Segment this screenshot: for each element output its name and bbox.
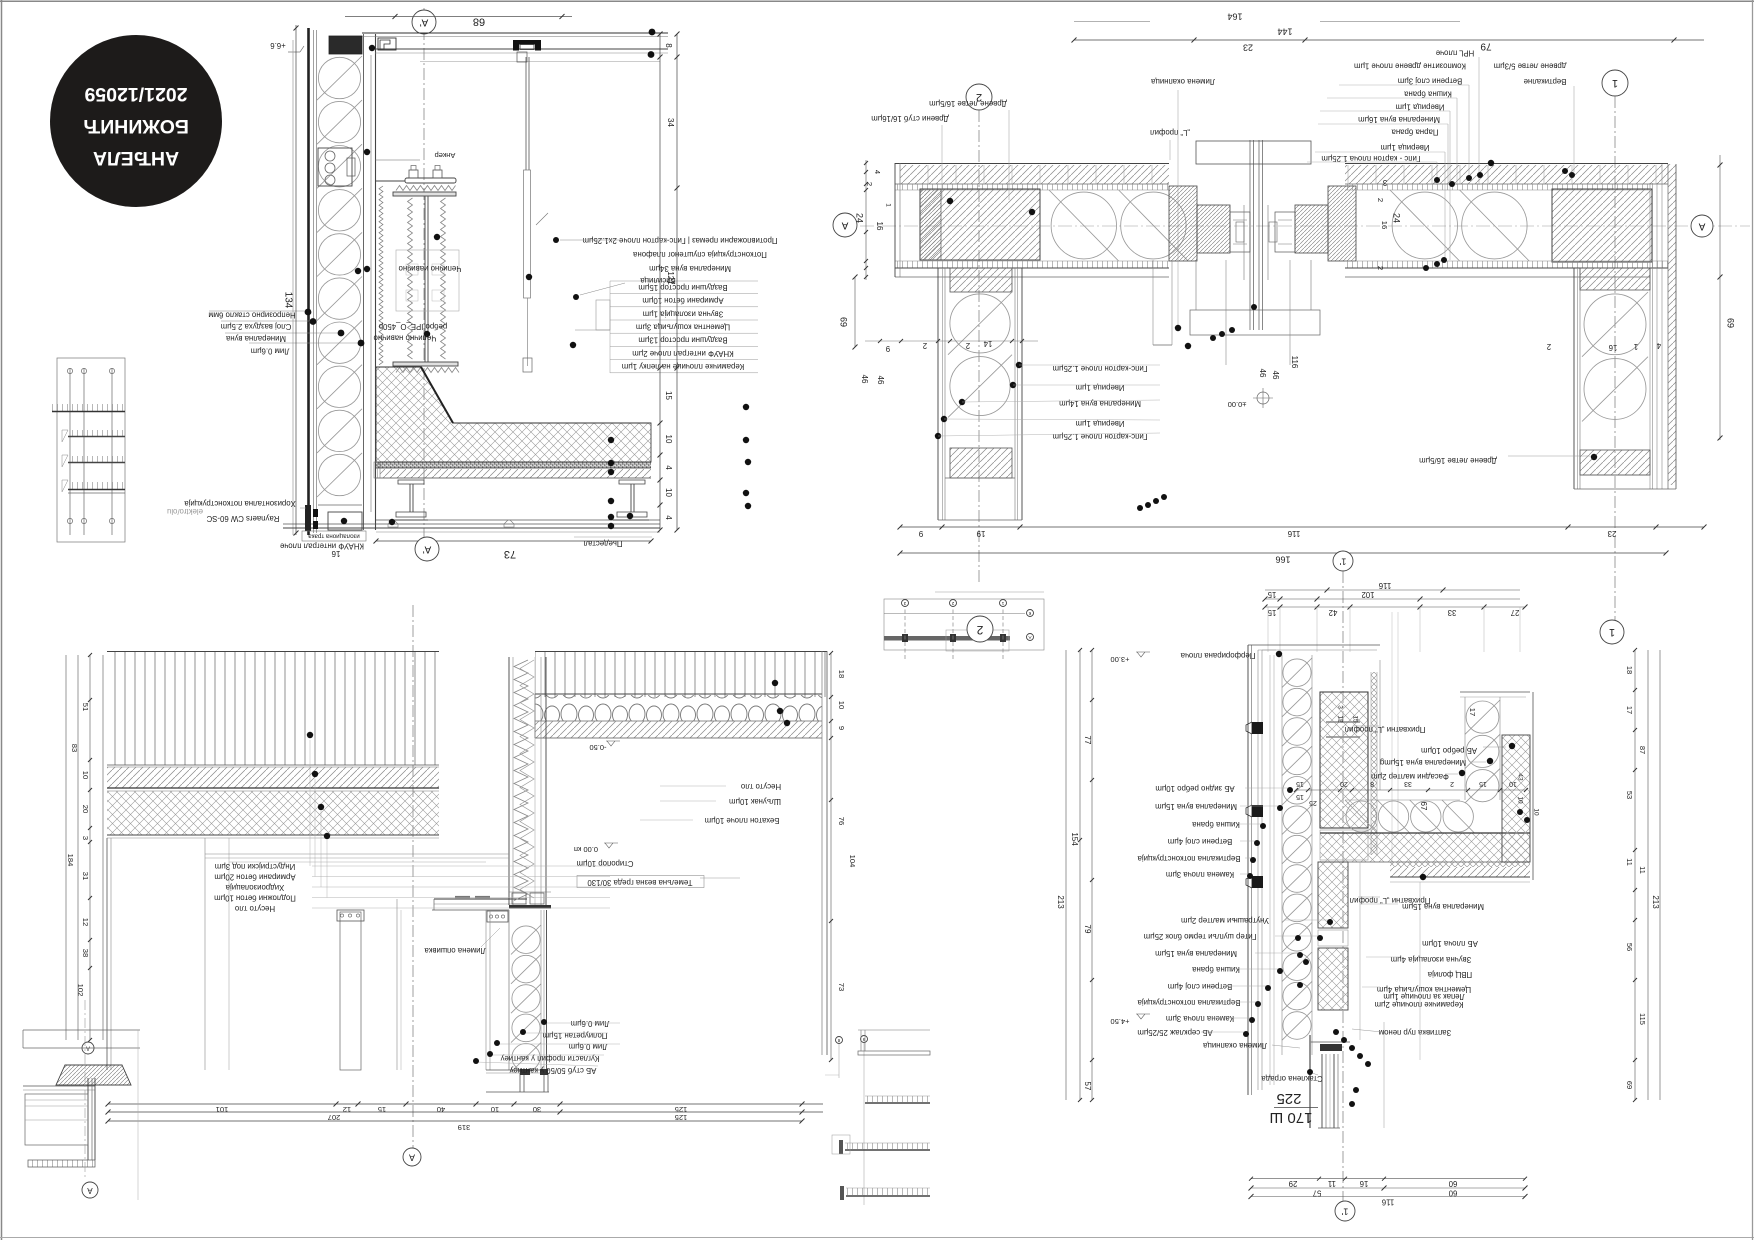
- svg-text:20: 20: [1340, 780, 1348, 787]
- svg-text:+4.50: +4.50: [1111, 1017, 1130, 1026]
- svg-text:Гитер шупљи термо блок 25μm: Гитер шупљи термо блок 25μm: [1144, 932, 1257, 941]
- corner detail lines under paver: [23, 1085, 95, 1087]
- curtain-wall top bracket: [378, 38, 396, 50]
- drawing 3 axis line: [412, 605, 414, 1148]
- svg-text:Звучна изолација 1μm: Звучна изолација 1μm: [643, 309, 724, 318]
- mini jamb detail outline: [57, 358, 125, 542]
- svg-text:Камена плоча 3μm: Камена плоча 3μm: [1166, 1014, 1234, 1023]
- svg-text:Гипс-картон плоче 1.25μm: Гипс-картон плоче 1.25μm: [1053, 364, 1148, 373]
- drawing 4 roof thin layers: [1390, 862, 1530, 867]
- svg-text:43: 43: [1516, 773, 1523, 781]
- drawing 4 facade vertical lines: [1247, 645, 1249, 1095]
- svg-text:1: 1: [1634, 342, 1638, 351]
- svg-text:42: 42: [1329, 608, 1338, 617]
- mini jamb mullion lines: [69, 368, 71, 535]
- window sill box below: [1190, 310, 1320, 335]
- fixing plate with bolts: [487, 911, 508, 922]
- leader from stack to slab: [575, 329, 610, 331]
- svg-text:69: 69: [1625, 1081, 1634, 1089]
- svg-text:17: 17: [1625, 706, 1634, 714]
- pedestal support right: [630, 484, 632, 512]
- svg-text:Хоризонтална потконструкција: Хоризонтална потконструкција: [184, 499, 296, 508]
- window left jamb hatch blocks: [1169, 186, 1197, 261]
- corner detail top bar: [23, 1029, 140, 1031]
- svg-text:24: 24: [1392, 213, 1402, 223]
- svg-text:Несуто тло: Несуто тло: [740, 782, 781, 791]
- drawing 1 section mark A' bottom: [415, 537, 439, 561]
- svg-text:87: 87: [1638, 746, 1647, 754]
- svg-text:69: 69: [1726, 318, 1736, 328]
- svg-text:Иверица 1μm: Иверица 1μm: [1076, 419, 1125, 428]
- svg-text:Стаклена ограда: Стаклена ограда: [1261, 1074, 1323, 1083]
- svg-text:А: А: [86, 1044, 90, 1050]
- sill sheet lines: [1153, 344, 1172, 346]
- svg-text:Лимена окапница: Лимена окапница: [1150, 77, 1215, 86]
- hanger rod fork: [523, 358, 532, 372]
- mini detail top frame: [858, 1029, 930, 1031]
- svg-text:Хидроизолација: Хидроизолација: [225, 883, 284, 892]
- svg-text:КНАУФ интеграл плоче: КНАУФ интеграл плоче: [280, 541, 364, 550]
- right label stack drawing 1: [610, 280, 758, 282]
- svg-text:20: 20: [81, 805, 90, 813]
- drawing 1 axis line: [423, 8, 425, 560]
- svg-text:73: 73: [504, 548, 516, 560]
- anchor bracket with bolt circles: [318, 148, 352, 186]
- svg-text:Кишна брана: Кишна брана: [1403, 89, 1451, 98]
- hanger rod: [525, 57, 527, 170]
- svg-text:46: 46: [1271, 371, 1280, 380]
- svg-text:29: 29: [1289, 1179, 1298, 1188]
- svg-text:Минерална вуна 15μm: Минерална вуна 15μm: [1155, 802, 1237, 811]
- svg-text:57: 57: [1313, 1188, 1322, 1197]
- drawing 2 left dims: [865, 160, 867, 280]
- svg-text:Потконструкција спуштеног плаф: Потконструкција спуштеног плафона: [632, 250, 766, 259]
- svg-text:2: 2: [1376, 198, 1385, 202]
- drawing 4 circle 1' bottom: [1335, 1201, 1355, 1221]
- svg-text:Камена плоча 3μm: Камена плоча 3μm: [1166, 870, 1234, 879]
- svg-text:2: 2: [1376, 266, 1385, 270]
- svg-text:ребро IPE_O_450p: ребро IPE_O_450p: [378, 322, 447, 331]
- anchor plate with bolts: [405, 178, 456, 183]
- svg-text:Композитне дрвене плоче 1μm: Композитне дрвене плоче 1μm: [1354, 61, 1466, 70]
- corner detail paver trapezoid: [56, 1065, 131, 1085]
- svg-text:±0.00: ±0.00: [1228, 400, 1247, 409]
- svg-text:46: 46: [1258, 369, 1267, 378]
- svg-text:76: 76: [837, 817, 846, 825]
- drawing 4 parapet crosshatch column: [1502, 735, 1530, 862]
- thin diagonal hatch band under screed: [380, 469, 651, 478]
- svg-text:18: 18: [1625, 666, 1634, 674]
- svg-text:+6.6: +6.6: [270, 41, 285, 50]
- floor bottom lines: [376, 519, 660, 521]
- facade clips black: [1252, 722, 1263, 734]
- drawing 3 central wall lower insulation: [485, 910, 487, 1070]
- svg-text:16: 16: [1360, 1179, 1369, 1188]
- svg-text:Парна брана: Парна брана: [1391, 128, 1439, 137]
- svg-text:„L“ профил: „L“ профил: [1150, 128, 1190, 137]
- svg-text:1': 1': [1339, 557, 1346, 567]
- svg-text:34: 34: [666, 118, 675, 127]
- svg-text:79: 79: [1480, 40, 1492, 51]
- svg-text:116: 116: [1378, 581, 1391, 590]
- drawing 3 vline left of wall: [396, 899, 398, 1070]
- drawing 2 right column downward: [1573, 268, 1575, 489]
- svg-text:319: 319: [458, 1123, 471, 1132]
- svg-text:Кишна брана: Кишна брана: [1191, 965, 1239, 974]
- svg-text:Иверица 1μm: Иверица 1μm: [1381, 143, 1430, 152]
- svg-text:15: 15: [378, 1105, 386, 1114]
- svg-text:АБ зидно ребро 10μm: АБ зидно ребро 10μm: [1155, 784, 1234, 793]
- small plan big circle 2: [967, 616, 993, 642]
- svg-text:A': A': [420, 16, 429, 27]
- drawing 1 top dim 68: [345, 16, 572, 18]
- mini detail shelf band 2: [845, 1143, 930, 1149]
- svg-text:17: 17: [1468, 708, 1477, 716]
- drawing 3 section circle A bottom: [403, 1148, 421, 1166]
- svg-text:8: 8: [664, 43, 673, 48]
- drawing 4 window head fittings: [1320, 1044, 1342, 1051]
- svg-text:+3.00: +3.00: [1111, 655, 1130, 664]
- window frame head at wall top: [509, 905, 551, 909]
- bottom dim 73: [376, 540, 651, 542]
- drawing 4 bottom dims: [1251, 1178, 1525, 1180]
- drawing 4 top dim extension lines: [1267, 607, 1269, 652]
- svg-text:10: 10: [81, 771, 90, 779]
- svg-text:10: 10: [1532, 808, 1539, 816]
- svg-text:23: 23: [1607, 529, 1616, 538]
- small circle left: [82, 1042, 94, 1054]
- drawing 2 horizontal center axis: [838, 225, 1750, 227]
- drawing 2 wall band left part: [895, 163, 1169, 165]
- svg-text:А: А: [1028, 635, 1031, 640]
- svg-text:57: 57: [1083, 1082, 1092, 1091]
- svg-text:16: 16: [875, 222, 884, 231]
- svg-text:116: 116: [1287, 529, 1300, 538]
- mini jamb band 3: [68, 456, 125, 462]
- ceiling hanger fitting: [513, 40, 541, 45]
- drawing 4 crosshatch block B: [1318, 862, 1348, 928]
- drawing 2 right dims: [1719, 155, 1721, 440]
- svg-text:16: 16: [1609, 343, 1618, 352]
- drawing 4 crosshatch block C: [1318, 948, 1348, 1010]
- mini jamb band 4: [68, 482, 125, 489]
- drawing 4 right dim column: [1634, 650, 1636, 1100]
- svg-text:115: 115: [1638, 1013, 1647, 1025]
- svg-text:51: 51: [81, 703, 90, 711]
- svg-text:ПВЦ фолија: ПВЦ фолија: [1427, 970, 1472, 979]
- svg-text:1: 1: [1612, 77, 1618, 89]
- drawing 3 left dim column: [65, 655, 67, 1040]
- svg-text:166: 166: [1275, 555, 1290, 565]
- stack leader verticals: [1436, 162, 1438, 185]
- svg-text:60: 60: [1448, 1188, 1457, 1197]
- svg-text:38: 38: [81, 949, 90, 957]
- svg-text:Минерална вуна 15μm: Минерална вуна 15μm: [1155, 949, 1237, 958]
- drawing 2 top dim lines: [1074, 21, 1150, 23]
- svg-text:68: 68: [473, 16, 485, 28]
- bottom left fitting black parts: [305, 505, 311, 531]
- left dim 134: [295, 25, 297, 535]
- svg-text:3: 3: [1382, 178, 1387, 187]
- window frame hardware right: [1275, 212, 1295, 252]
- drawing 3 left slab diagonal hatch band: [107, 767, 439, 788]
- svg-text:Индустријски под 3μm: Индустријски под 3μm: [215, 862, 295, 871]
- svg-text:Подложни бетон 10μm: Подложни бетон 10μm: [214, 893, 296, 902]
- svg-text:1: 1: [884, 203, 891, 207]
- svg-text:14: 14: [983, 339, 992, 348]
- svg-text:12: 12: [343, 1105, 351, 1114]
- svg-text:56: 56: [1625, 943, 1634, 951]
- svg-text:83: 83: [70, 744, 79, 752]
- drawing 4 lower leader dot cluster: [1333, 1029, 1339, 1035]
- svg-text:Шљунак 10μm: Шљунак 10μm: [729, 797, 781, 806]
- ceiling slab lines: [362, 32, 668, 34]
- svg-text:К: К: [1028, 611, 1031, 616]
- svg-text:Минерална вуна 15μmg: Минерална вуна 15μmg: [1380, 758, 1466, 767]
- pedestal support left: [409, 484, 411, 512]
- svg-text:АНЂЕЛА: АНЂЕЛА: [93, 147, 179, 169]
- right facade cap strips: [1650, 183, 1657, 489]
- drawing 3 central wall upper zigzag: [508, 657, 510, 905]
- IPE web: [424, 196, 426, 362]
- svg-text:18: 18: [837, 670, 846, 678]
- drawing 3 timber deck stripes right: [535, 652, 827, 697]
- svg-text:Стиропор 10μm: Стиропор 10μm: [577, 859, 634, 868]
- mini detail shelf band 1: [865, 1096, 930, 1102]
- svg-text:24: 24: [855, 213, 865, 223]
- svg-text:4: 4: [1656, 341, 1661, 350]
- svg-text:Слој ваздуха 2.5μm: Слој ваздуха 2.5μm: [221, 322, 292, 331]
- sheet border frame: [1, 0, 3, 1240]
- svg-text:10: 10: [664, 488, 673, 497]
- frame below wall: [519, 1073, 521, 1092]
- drawing 3 stone band right: [535, 695, 822, 721]
- window lintel box: [1196, 141, 1311, 164]
- svg-text:213: 213: [1651, 895, 1660, 909]
- drawing 1 section mark A' top: [412, 10, 436, 34]
- drawing 4 axis: [1342, 571, 1344, 1201]
- svg-text:2: 2: [976, 623, 983, 637]
- floor lines below slab drawing 3: [205, 853, 509, 855]
- svg-text:Ветрени слој 4μm: Ветрени слој 4μm: [1168, 837, 1232, 846]
- svg-text:Кишна брана: Кишна брана: [1191, 820, 1239, 829]
- svg-text:33: 33: [1448, 608, 1457, 617]
- svg-text:Лепак за плочице 1μm: Лепак за плочице 1μm: [1383, 992, 1464, 1001]
- svg-text:А: А: [1698, 220, 1705, 231]
- IPE bottom flange: [393, 362, 458, 366]
- scattered leader dots drawing 2: [1185, 343, 1191, 349]
- svg-text:16: 16: [331, 549, 340, 558]
- svg-text:69: 69: [839, 317, 849, 327]
- svg-text:Перфорирана плоча: Перфорирана плоча: [1180, 651, 1255, 660]
- svg-text:40: 40: [437, 1105, 445, 1114]
- svg-text:Цементна кошуљица 3μm: Цементна кошуљица 3μm: [636, 323, 730, 332]
- facade inner lines: [363, 34, 365, 530]
- svg-text:15: 15: [1267, 590, 1276, 599]
- window right jamb hatch blocks: [1328, 186, 1356, 261]
- mini detail shelf band 3: [846, 1188, 930, 1195]
- right dim line inner drawing 1: [659, 34, 661, 530]
- svg-text:2: 2: [966, 341, 970, 350]
- svg-text:Дрвене летве 16/5μm: Дрвене летве 16/5μm: [1419, 456, 1497, 465]
- drawing 4 crosshatch block A: [1320, 692, 1368, 828]
- drawing 4 block gap boxes: [1320, 830, 1368, 860]
- svg-text:67: 67: [1419, 802, 1428, 811]
- drawing 4 parapet top: [1460, 691, 1530, 693]
- svg-text:27: 27: [1511, 608, 1520, 617]
- concrete topping zigzag edge: [379, 186, 383, 365]
- svg-text:46: 46: [876, 376, 885, 385]
- svg-text:184: 184: [66, 854, 75, 867]
- svg-text:213: 213: [1056, 895, 1065, 909]
- svg-text:53: 53: [1625, 791, 1634, 799]
- small plan grid circles: [902, 600, 909, 607]
- svg-text:2021/12059: 2021/12059: [84, 83, 187, 105]
- svg-text:154: 154: [1070, 832, 1079, 846]
- svg-text:Лим 0.6μm: Лим 0.6μm: [571, 1019, 610, 1028]
- drawing 4 wall coil insulation: [1283, 659, 1311, 687]
- svg-text:Унутрашњи малтер 2μm: Унутрашњи малтер 2μm: [1181, 916, 1269, 925]
- mini jamb left wedges: [62, 430, 68, 442]
- svg-text:АБ стуб 50/50 у кантиеу: АБ стуб 50/50 у кантиеу: [510, 1066, 597, 1075]
- svg-text:Керамичке плочице 2μm: Керамичке плочице 2μm: [1375, 1000, 1464, 1009]
- title badge circle: [50, 35, 222, 207]
- svg-text:225: 225: [1276, 1090, 1301, 1107]
- timber column block in plan: [920, 189, 1040, 260]
- drawing 4 wall top cap: [1248, 644, 1380, 646]
- drawing 3 wall below slab left lines: [106, 838, 108, 1070]
- corner detail window frame vertical: [87, 1078, 89, 1160]
- mini detail leader lines: [838, 1044, 840, 1078]
- left cap lines: [894, 163, 896, 277]
- svg-text:30: 30: [533, 1105, 541, 1114]
- svg-text:Челично навично: Челично навично: [373, 333, 437, 342]
- svg-text:25: 25: [1309, 799, 1317, 806]
- window frame hardware left: [1230, 212, 1250, 252]
- svg-text:Лимена опшивка: Лимена опшивка: [424, 946, 486, 955]
- svg-text:Иверица 1μm: Иверица 1μm: [1396, 103, 1445, 112]
- svg-text:Кугласти профил у кантиеу: Кугласти профил у кантиеу: [501, 1054, 600, 1063]
- ledge lines center: [434, 898, 527, 900]
- svg-text:2: 2: [1547, 342, 1551, 351]
- svg-text:Фасадни малтер 2μm: Фасадни малтер 2μm: [1371, 772, 1449, 781]
- svg-text:15: 15: [1296, 780, 1304, 787]
- steel post center-left: [340, 912, 361, 1070]
- svg-text:23: 23: [1243, 43, 1253, 53]
- svg-text:3: 3: [1336, 705, 1343, 709]
- svg-text:БОЖИНИЋ: БОЖИНИЋ: [83, 115, 189, 137]
- svg-text:Чепично иавично: Чепично иавично: [398, 264, 462, 273]
- svg-text:12: 12: [81, 918, 90, 926]
- svg-text:Иверица 1μm: Иверица 1μm: [1076, 383, 1125, 392]
- facade outer sheet thick line: [307, 28, 310, 535]
- svg-text:3: 3: [81, 836, 90, 840]
- svg-text:Армирани бетон 20μm: Армирани бетон 20μm: [214, 872, 295, 881]
- svg-text:9: 9: [837, 726, 846, 730]
- svg-text:46: 46: [860, 375, 869, 384]
- svg-text:1: 1: [1609, 626, 1615, 638]
- drawing 3 rubble hatch band right: [535, 721, 822, 738]
- svg-text:Минерална вуна 34μm: Минерална вуна 34μm: [649, 264, 731, 273]
- drawing 3 right dim column: [830, 653, 832, 1060]
- drawing 4 parapet coils: [1466, 701, 1499, 733]
- svg-text:Ваздушни простор 13μm: Ваздушни простор 13μm: [638, 336, 727, 345]
- svg-text:2: 2: [865, 182, 874, 186]
- drawing 3 bottom dim lines: [108, 1103, 802, 1105]
- svg-text:121: 121: [666, 271, 675, 285]
- svg-text:Дрвене летве 16/5μm: Дрвене летве 16/5μm: [929, 99, 1007, 108]
- svg-text:Пьедестал: Пьедестал: [583, 539, 622, 548]
- svg-text:elektro/olu: elektro/olu: [167, 507, 203, 516]
- drawing 3 right wall edge lines: [821, 651, 823, 1055]
- svg-text:А: А: [87, 1186, 93, 1195]
- svg-text:15: 15: [1267, 608, 1276, 617]
- coil insulation right segment: [1392, 192, 1457, 259]
- svg-text:11: 11: [1328, 1179, 1336, 1188]
- svg-text:10: 10: [491, 1105, 499, 1114]
- svg-text:15: 15: [1296, 793, 1304, 800]
- svg-text:Полиуретан 15μm: Полиуретан 15μm: [543, 1031, 608, 1040]
- svg-text:15: 15: [1479, 780, 1487, 787]
- svg-text:Вертикална потконструкција: Вертикална потконструкција: [1137, 854, 1241, 863]
- svg-text:116: 116: [1290, 356, 1299, 369]
- svg-text:Темељна везна греда 30/130: Темељна везна греда 30/130: [587, 878, 693, 887]
- svg-text:9: 9: [886, 344, 890, 353]
- svg-text:Гипс - картон плоча 1.25μm: Гипс - картон плоча 1.25μm: [1321, 154, 1420, 163]
- svg-text:134: 134: [282, 292, 293, 309]
- svg-text:101: 101: [216, 1105, 229, 1114]
- svg-text:Ветрени слој 4μm: Ветрени слој 4μm: [1168, 982, 1232, 991]
- svg-text:11: 11: [1625, 858, 1634, 866]
- svg-text:Минерална вуна: Минерална вуна: [225, 334, 286, 343]
- floor slab crosshatch polygon: [376, 367, 651, 462]
- small plan wall band dark: [884, 636, 1010, 641]
- svg-text:А: А: [841, 219, 848, 230]
- svg-text:Лимена окапница: Лимена окапница: [1202, 1041, 1267, 1050]
- drawing 2 bottom dim lines: [900, 526, 1704, 528]
- svg-text:Звучна изолација 4μm: Звучна изолација 4μm: [1391, 955, 1472, 964]
- svg-text:Минерална вуна 16μm: Минерална вуна 16μm: [1358, 115, 1440, 124]
- svg-text:А: А: [409, 1153, 415, 1163]
- svg-text:Несуто тло: Несуто тло: [234, 904, 275, 913]
- svg-text:2: 2: [923, 341, 927, 350]
- svg-text:125: 125: [675, 1105, 688, 1114]
- svg-text:Противпожарни премаз | Гипс-ка: Противпожарни премаз | Гипс-картон плоче…: [582, 236, 777, 245]
- svg-text:16: 16: [1380, 221, 1389, 229]
- drawing 3 leader dots on slab: [307, 732, 313, 738]
- svg-text:10: 10: [664, 435, 673, 444]
- svg-text:Керамичке плочице на лепку 1μm: Керамичке плочице на лепку 1μm: [622, 362, 744, 371]
- window glazing center lines: [1249, 140, 1251, 330]
- drawing 3 left slab crosshatch band: [107, 791, 439, 835]
- drawing 2 wall band right part: [1345, 163, 1668, 165]
- corner detail sill strip: [28, 1160, 95, 1167]
- drawing 4 mid dim row: [1296, 789, 1526, 791]
- screed stipple band: [376, 462, 651, 468]
- svg-text:Ветрени слој 3μm: Ветрени слој 3μm: [1398, 77, 1462, 86]
- drawing 4 top dims: [1265, 589, 1520, 591]
- svg-text:АБ ребро 10μm: АБ ребро 10μm: [1421, 746, 1477, 755]
- svg-text:31: 31: [81, 872, 90, 880]
- svg-text:73: 73: [837, 983, 846, 991]
- facade glass line: [292, 40, 294, 535]
- svg-text:A': A': [423, 543, 432, 554]
- mineral wool coil band drawing 1: [318, 57, 360, 98]
- corner detail glazing box: [25, 1094, 88, 1145]
- svg-text:АБ серклаж 25/25μm: АБ серклаж 25/25μm: [1137, 1028, 1212, 1037]
- window small sash details: [1236, 222, 1244, 242]
- svg-text:АБ плоча 10μm: АБ плоча 10μm: [1422, 939, 1478, 948]
